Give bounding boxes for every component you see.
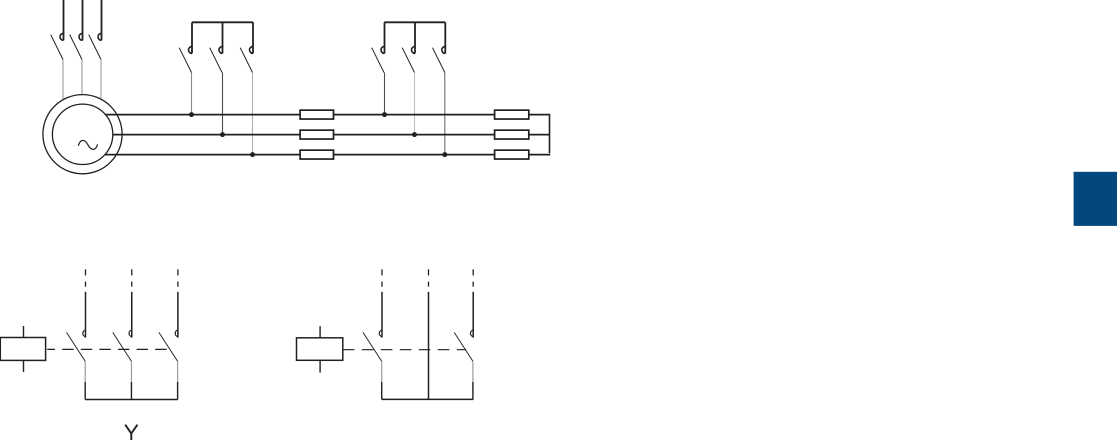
wire K1 contact 1 to row 1 bbox=[191, 73, 193, 115]
K1 aux contact 3 link dash a bbox=[177, 269, 179, 275]
resistor R1 bbox=[300, 110, 333, 119]
K2 aux contact 1 arc bbox=[379, 330, 382, 337]
disconnect switch Q1 pole 3 fixed contact arc bbox=[98, 33, 101, 40]
wire K1 contact 2 to row 2 bbox=[222, 73, 224, 135]
disconnect switch Q1 pole 3 terminal bbox=[101, 0, 103, 40]
contactor K2 contact 2 terminal bbox=[414, 22, 416, 53]
wire phase row 2 bbox=[113, 134, 550, 136]
contactor K2 contact 1 terminal bbox=[384, 22, 386, 53]
K2 aux contact 2 terminal bbox=[472, 292, 474, 338]
contactor K2 contact 2 blade bbox=[402, 48, 414, 73]
wire K2 contact 1 to row 1 bbox=[384, 73, 386, 115]
coil K2 bottom stub wire bbox=[319, 360, 321, 372]
contactor K2 top bus wire bbox=[384, 21, 445, 23]
K1 aux contact 3 lower wire bbox=[177, 361, 179, 382]
wire phase row 3 bbox=[105, 154, 551, 156]
K1 aux contact 1 link dash a bbox=[85, 269, 87, 275]
contactor K2 contact 3 terminal bbox=[444, 22, 446, 53]
K2 middle pass-through wire bbox=[428, 292, 430, 400]
contactor K1 contact 3 arc bbox=[250, 46, 253, 53]
wire from Q1 pole 2 to motor bbox=[81, 60, 83, 96]
K2 aux contact 1 terminal bbox=[381, 292, 383, 338]
wire K2 contact 3 to row 3 bbox=[444, 73, 446, 155]
K1 aux contact 1 lower wire dark bbox=[84, 382, 86, 400]
disconnect switch Q1 pole 2 blade bbox=[70, 35, 82, 60]
K1 aux contact 1 terminal bbox=[85, 292, 87, 338]
K1 aux contact 2 link dash b bbox=[131, 282, 133, 287]
mechanical link dashed line K1 bbox=[47, 348, 170, 350]
K2 aux contact 2 link dash a bbox=[472, 269, 474, 275]
K2 aux contact 1 blade bbox=[363, 332, 382, 361]
contactor K2 contact 1 arc bbox=[381, 46, 385, 53]
K2 aux contact 2 lower wire bbox=[472, 361, 474, 382]
resistor R5 bbox=[495, 130, 529, 139]
coil K1 bottom stub wire bbox=[23, 360, 25, 372]
resistor R4 bbox=[495, 110, 529, 119]
label Y (star) bbox=[125, 425, 137, 440]
K1 aux contact 2 lower wire dark bbox=[130, 382, 132, 400]
mechanical link dashed line K2 bbox=[343, 349, 466, 351]
wire phase row 1 bbox=[105, 114, 549, 116]
K1 aux contact 3 blade bbox=[159, 332, 178, 361]
contactor coil K2 bbox=[297, 338, 343, 361]
wire K1 contact 3 to row 3 bbox=[252, 73, 254, 155]
K2 middle link dash b bbox=[428, 282, 430, 287]
K1 aux contact 2 blade bbox=[113, 332, 132, 361]
K1 bottom bus wire bbox=[85, 399, 178, 401]
motor M1 outer circle bbox=[43, 95, 122, 174]
K1 aux contact 2 arc bbox=[129, 330, 132, 337]
disconnect switch Q1 pole 2 fixed contact arc bbox=[79, 33, 82, 40]
wire from Q1 pole 1 to motor bbox=[62, 60, 64, 100]
K2 aux contact 2 link dash b bbox=[472, 282, 474, 287]
K1 aux contact 2 terminal bbox=[131, 292, 133, 338]
wire from Q1 pole 3 to motor bbox=[100, 60, 102, 100]
disconnect switch Q1 pole 1 fixed contact arc bbox=[60, 33, 63, 40]
blue sidebar marker bbox=[1074, 172, 1117, 226]
resistor R6 bbox=[495, 150, 529, 159]
K1 aux contact 1 arc bbox=[83, 330, 86, 337]
K1 aux contact 1 link dash b bbox=[85, 282, 87, 287]
K2 middle link dash a bbox=[428, 269, 430, 275]
contactor K1 contact 1 terminal bbox=[191, 22, 193, 53]
disconnect switch Q1 pole 1 blade bbox=[51, 35, 63, 60]
contactor K1 contact 1 arc bbox=[189, 46, 192, 53]
contactor K1 contact 2 terminal bbox=[222, 22, 224, 53]
contactor K1 top bus wire bbox=[192, 21, 253, 23]
K2 bottom bus wire bbox=[382, 398, 474, 400]
contactor K1 contact 3 blade bbox=[240, 48, 252, 73]
contactor K1 contact 1 blade bbox=[179, 48, 191, 73]
K1 aux contact 3 lower wire dark bbox=[177, 382, 179, 400]
K1 aux contact 3 arc bbox=[175, 330, 178, 337]
K1 aux contact 3 link dash b bbox=[177, 282, 179, 287]
contactor K2 contact 3 arc bbox=[442, 46, 445, 53]
K2 aux contact 1 lower wire dark bbox=[381, 382, 383, 399]
wire K2 contact 2 to row 2 bbox=[414, 73, 416, 135]
contactor K1 contact 3 terminal bbox=[252, 22, 254, 53]
disconnect switch Q1 pole 3 blade bbox=[89, 35, 101, 60]
disconnect switch Q1 pole 2 terminal bbox=[82, 0, 84, 40]
junction node K2-row1 bbox=[382, 112, 387, 117]
contactor K1 contact 2 blade bbox=[210, 48, 222, 73]
junction node K1-row1 bbox=[189, 112, 194, 117]
K1 aux contact 1 lower wire bbox=[84, 361, 86, 382]
K2 aux contact 2 blade bbox=[454, 332, 473, 361]
resistor R3 bbox=[300, 150, 333, 159]
K2 aux contact 2 arc bbox=[470, 330, 473, 337]
contactor K1 contact 2 arc bbox=[219, 46, 223, 53]
coil K1 top stub wire bbox=[23, 326, 25, 338]
coil K2 top stub wire bbox=[319, 326, 321, 338]
K2 aux contact 1 link dash a bbox=[381, 269, 383, 275]
K1 aux contact 1 blade bbox=[67, 332, 86, 361]
junction node K1-row2 bbox=[220, 132, 225, 137]
contactor K2 contact 3 blade bbox=[433, 48, 445, 73]
junction node K2-row2 bbox=[412, 132, 417, 137]
motor M1 sine symbol bbox=[78, 140, 97, 149]
K1 aux contact 3 terminal bbox=[177, 292, 179, 338]
K1 aux contact 2 link dash a bbox=[131, 269, 133, 275]
contactor coil K1 bbox=[0, 338, 45, 361]
contactor K2 contact 1 blade bbox=[372, 48, 384, 73]
junction node K2-row3 bbox=[442, 152, 447, 157]
K1 aux contact 2 lower wire bbox=[130, 361, 132, 382]
wire star-point vertical connector bbox=[549, 114, 551, 153]
contactor K2 contact 2 arc bbox=[412, 46, 415, 53]
K2 aux contact 1 lower wire bbox=[381, 361, 383, 382]
motor M1 inner circle bbox=[52, 104, 112, 164]
junction node K1-row3 bbox=[250, 152, 255, 157]
K2 aux contact 2 lower wire dark bbox=[472, 382, 474, 399]
resistor R2 bbox=[300, 130, 333, 139]
disconnect switch Q1 pole 1 terminal bbox=[63, 0, 65, 40]
K2 aux contact 1 link dash b bbox=[381, 282, 383, 287]
